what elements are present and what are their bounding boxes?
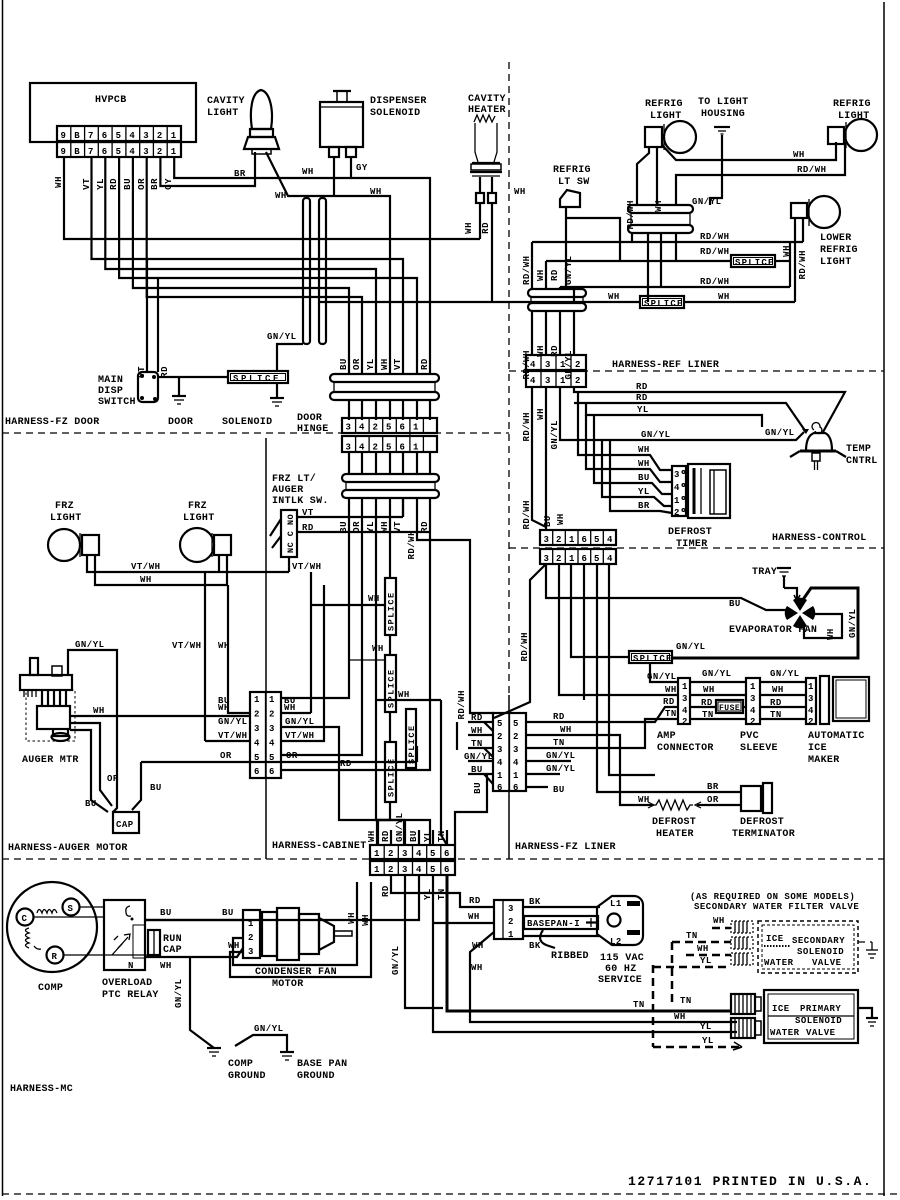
- svg-text:4: 4: [129, 147, 135, 157]
- wire GN/YL from C5 to splice: [571, 564, 629, 657]
- wire GN/YL auger: [68, 650, 117, 812]
- svg-text:WH: WH: [782, 245, 792, 257]
- svg-text:WH: WH: [713, 916, 725, 926]
- auger motor: [20, 658, 75, 741]
- svg-text:PRIMARY: PRIMARY: [800, 1004, 841, 1014]
- svg-text:RD/WH: RD/WH: [700, 247, 730, 257]
- dispenser solenoid: [320, 91, 363, 157]
- svg-text:1: 1: [682, 682, 688, 692]
- svg-text:7: 7: [88, 147, 94, 157]
- wire BU auger to cap: [70, 730, 108, 812]
- section divider fz door bottom: [2, 432, 509, 434]
- svg-text:4: 4: [359, 423, 365, 433]
- svg-text:6: 6: [582, 554, 588, 564]
- svg-text:OR: OR: [220, 751, 232, 761]
- svg-text:LT SW: LT SW: [558, 177, 590, 188]
- svg-text:RD/WH: RD/WH: [700, 277, 730, 287]
- svg-text:OVERLOAD: OVERLOAD: [102, 978, 152, 989]
- svg-text:2: 2: [508, 917, 514, 927]
- svg-text:1: 1: [569, 535, 575, 545]
- svg-text:2: 2: [575, 360, 581, 370]
- wire hinge GN/YL down: [675, 233, 677, 261]
- svg-text:WH: WH: [361, 914, 371, 926]
- connector door hinge grid row1: [342, 418, 437, 436]
- connector harness-ref liner row1: [526, 355, 586, 370]
- svg-text:6: 6: [400, 423, 406, 433]
- wire VT/WH frz lights: [87, 555, 289, 572]
- svg-text:6: 6: [269, 767, 275, 777]
- wire WH down to cabinet: [228, 585, 250, 713]
- svg-text:WH: WH: [608, 292, 620, 302]
- svg-text:BU: BU: [85, 799, 97, 809]
- svg-text:BU: BU: [160, 908, 172, 918]
- defrost heater coil: [648, 800, 701, 810]
- svg-text:GN/YL: GN/YL: [848, 608, 858, 638]
- svg-text:6: 6: [513, 783, 519, 793]
- svg-text:WH: WH: [302, 167, 314, 177]
- svg-text:TRAY: TRAY: [752, 567, 777, 578]
- svg-text:3: 3: [513, 745, 519, 755]
- svg-text:3: 3: [497, 745, 503, 755]
- svg-text:SWITCH: SWITCH: [98, 397, 136, 408]
- svg-text:BU: BU: [553, 785, 565, 795]
- wire hinge WH down: [647, 233, 649, 302]
- wire BU stub C7 right: [526, 786, 548, 788]
- wire BU col down: [281, 498, 349, 698]
- wire RD/WH run3: [560, 286, 790, 288]
- wires into left refrig connector: [531, 242, 533, 289]
- section divider auger/cabinet: [265, 438, 267, 859]
- svg-text:3: 3: [808, 694, 814, 704]
- svg-text:6: 6: [444, 849, 450, 859]
- wire lower light RD/WH lead: [802, 218, 804, 242]
- wire VT/WH right of C6: [281, 585, 324, 741]
- wire col4 C5 down: [609, 564, 655, 775]
- svg-text:GN/YL: GN/YL: [564, 255, 574, 285]
- svg-text:SOLENOID: SOLENOID: [795, 1016, 842, 1026]
- wires comp to relay: [33, 916, 104, 918]
- svg-text:4: 4: [416, 849, 422, 859]
- wire GN/YL run: [560, 387, 804, 440]
- svg-text:4: 4: [513, 758, 519, 768]
- secondary valve coils: [731, 921, 753, 965]
- svg-text:2: 2: [248, 933, 254, 943]
- svg-text:RD: RD: [469, 896, 481, 906]
- svg-text:OR: OR: [137, 178, 147, 190]
- wire RD/WH long down: [532, 387, 546, 527]
- svg-text:DEFROST: DEFROST: [652, 817, 696, 828]
- svg-text:1: 1: [569, 554, 575, 564]
- door duct bar right: [319, 198, 326, 344]
- defrost terminator: [741, 783, 772, 813]
- svg-text:5: 5: [594, 554, 600, 564]
- svg-text:SPLICE: SPLICE: [735, 258, 775, 268]
- svg-text:60 HZ: 60 HZ: [605, 964, 637, 975]
- wire GN/YL stubs C7 right: [526, 760, 571, 762]
- wires refrig connector to ref liner: [531, 311, 533, 355]
- primary valve box: [764, 990, 858, 1043]
- svg-text:NC C NO: NC C NO: [286, 514, 296, 553]
- svg-text:DISPENSER: DISPENSER: [370, 96, 427, 107]
- connector harness-mc row2: [370, 861, 455, 875]
- svg-text:4: 4: [497, 758, 503, 768]
- svg-text:REFRIG: REFRIG: [820, 245, 858, 256]
- svg-text:WH: WH: [284, 703, 296, 713]
- svg-text:4: 4: [750, 706, 756, 716]
- refrig lt sw: [560, 190, 620, 289]
- wire WH into splice2b: [377, 699, 441, 701]
- svg-text:TN: TN: [437, 830, 447, 842]
- svg-text:VT/WH: VT/WH: [285, 731, 315, 741]
- svg-text:RD/WH: RD/WH: [700, 232, 730, 242]
- svg-text:WH: WH: [468, 912, 480, 922]
- svg-text:3: 3: [248, 947, 254, 957]
- svg-text:VT: VT: [82, 178, 92, 190]
- svg-text:CONNECTOR: CONNECTOR: [657, 743, 714, 754]
- wire VT to main disp switch: [146, 259, 148, 372]
- svg-text:GN/YL: GN/YL: [765, 428, 795, 438]
- svg-text:VT/WH: VT/WH: [292, 562, 322, 572]
- pvc sleeve: [746, 678, 760, 727]
- svg-text:RD: RD: [663, 697, 675, 707]
- wire WH relay: [145, 948, 243, 957]
- splice GN/YL: [629, 651, 673, 664]
- svg-text:LOWER: LOWER: [820, 233, 852, 244]
- svg-text:WH: WH: [218, 641, 230, 651]
- svg-text:LIGHT: LIGHT: [50, 513, 82, 524]
- svg-text:6: 6: [582, 535, 588, 545]
- svg-text:2: 2: [373, 423, 379, 433]
- svg-text:4: 4: [674, 483, 680, 493]
- refrig liner connector bars: [528, 289, 586, 311]
- svg-text:SERVICE: SERVICE: [598, 975, 642, 986]
- svg-text:WH: WH: [368, 594, 380, 604]
- svg-text:R: R: [52, 952, 58, 962]
- svg-text:1: 1: [508, 930, 514, 940]
- svg-text:3: 3: [545, 360, 551, 370]
- svg-text:YL: YL: [423, 888, 433, 900]
- svg-text:WH: WH: [218, 703, 230, 713]
- amp connector: [678, 678, 690, 727]
- overload ptc relay: [104, 900, 145, 970]
- svg-text:5: 5: [116, 147, 122, 157]
- wire GN/YL relay ground: [190, 957, 214, 1048]
- svg-text:GN/YL: GN/YL: [75, 640, 105, 650]
- wire OR col down: [281, 498, 362, 755]
- wire WH vert into C6 area: [310, 572, 312, 713]
- svg-text:12717101 PRINTED IN U.S.A.: 12717101 PRINTED IN U.S.A.: [628, 1174, 872, 1189]
- svg-text:BU: BU: [222, 908, 234, 918]
- svg-text:6: 6: [444, 865, 450, 875]
- ground secondary: [858, 942, 878, 958]
- splice cabinet 2: [385, 655, 397, 712]
- svg-text:RD: RD: [553, 712, 565, 722]
- wire VT/WH down to cabinet: [204, 572, 206, 741]
- svg-text:1: 1: [374, 865, 380, 875]
- ice maker connector: [806, 676, 829, 727]
- door hinge pin stubs: [349, 400, 430, 420]
- svg-text:AUGER: AUGER: [272, 485, 304, 496]
- power plug 115vac: [597, 896, 643, 947]
- svg-text:WH: WH: [793, 150, 805, 160]
- svg-text:BU: BU: [543, 515, 553, 527]
- svg-text:2: 2: [682, 717, 688, 727]
- svg-text:LIGHT: LIGHT: [207, 108, 239, 119]
- svg-text:BASE PAN: BASE PAN: [297, 1059, 347, 1070]
- wire WH run with splice2: [320, 301, 640, 303]
- wire RD intlk: [297, 531, 430, 533]
- svg-text:GN/YL: GN/YL: [647, 672, 677, 682]
- svg-text:3: 3: [143, 131, 149, 141]
- svg-text:5: 5: [430, 849, 436, 859]
- wire WH col to splice stack: [389, 498, 391, 578]
- wire BR timer: [610, 440, 672, 513]
- svg-text:TN: TN: [680, 996, 692, 1006]
- svg-text:HARNESS-CABINET: HARNESS-CABINET: [272, 841, 367, 852]
- svg-text:YL: YL: [423, 830, 433, 842]
- svg-text:1: 1: [750, 682, 756, 692]
- wire hinge RD down: [660, 233, 662, 287]
- fuse: [716, 700, 743, 713]
- svg-text:CAVITY: CAVITY: [207, 96, 245, 107]
- wire VT intlk: [297, 516, 403, 518]
- svg-text:4: 4: [129, 131, 135, 141]
- wire WH branch to splice area: [349, 659, 385, 661]
- svg-text:1: 1: [674, 496, 680, 506]
- basepan connector: [494, 900, 523, 940]
- svg-text:BR: BR: [707, 782, 719, 792]
- ground DOOR: [172, 377, 186, 404]
- wire VT col: [402, 498, 404, 517]
- svg-text:VALVE: VALVE: [806, 1028, 836, 1038]
- wire evap fan WH loop: [804, 614, 842, 638]
- svg-text:HARNESS-REF LINER: HARNESS-REF LINER: [612, 360, 719, 371]
- svg-text:3: 3: [544, 554, 550, 564]
- svg-text:RD: RD: [302, 523, 314, 533]
- svg-text:BU: BU: [339, 358, 349, 370]
- svg-text:SOLENOID: SOLENOID: [370, 108, 420, 119]
- svg-text:SECONDARY: SECONDARY: [792, 936, 845, 946]
- wire switch to splice: [158, 376, 228, 378]
- wire RD/WH C5 to C7: [494, 564, 546, 718]
- frz lt/auger intlk switch: [270, 510, 297, 572]
- wire YL timer: [602, 440, 672, 506]
- svg-text:REFRIG: REFRIG: [553, 165, 591, 176]
- connector harness-ref liner row2: [526, 371, 586, 387]
- wire RD run1: [574, 387, 845, 432]
- svg-text:SPLICE: SPLICE: [644, 299, 684, 309]
- svg-text:SOLENOID: SOLENOID: [222, 417, 272, 428]
- svg-text:DISP: DISP: [98, 386, 123, 397]
- svg-text:MAKER: MAKER: [808, 755, 840, 766]
- refrig light left: [645, 121, 696, 153]
- ribbed pointer: [540, 930, 555, 948]
- wire motor WH to pin2: [70, 715, 250, 717]
- wire labels above hinge: [339, 358, 430, 370]
- splice refrig2: [640, 296, 684, 309]
- svg-text:RD: RD: [340, 759, 352, 769]
- svg-text:3: 3: [346, 423, 352, 433]
- wire WH timer1: [578, 392, 672, 470]
- dashed wires secondary: [653, 916, 742, 1050]
- ground comp: [207, 1048, 221, 1056]
- svg-text:RD: RD: [481, 222, 491, 234]
- svg-text:RD: RD: [381, 885, 391, 897]
- svg-text:GN/YL: GN/YL: [702, 669, 732, 679]
- svg-text:COMP: COMP: [228, 1059, 253, 1070]
- svg-text:RD/WH: RD/WH: [407, 530, 417, 560]
- svg-text:2: 2: [556, 535, 562, 545]
- svg-text:RD: RD: [381, 830, 391, 842]
- svg-text:REFRIG: REFRIG: [645, 99, 683, 110]
- svg-text:ICE: ICE: [766, 934, 784, 944]
- svg-text:3: 3: [750, 694, 756, 704]
- svg-text:SPLICE: SPLICE: [633, 654, 673, 664]
- svg-text:AUGER MTR: AUGER MTR: [22, 755, 79, 766]
- svg-text:YL: YL: [96, 178, 106, 190]
- svg-text:1: 1: [171, 131, 177, 141]
- cavity light bulb: [244, 90, 279, 154]
- svg-text:VT/WH: VT/WH: [131, 562, 161, 572]
- svg-text:INTLK SW.: INTLK SW.: [272, 496, 329, 507]
- svg-text:GN/YL: GN/YL: [546, 751, 576, 761]
- svg-text:BU: BU: [638, 473, 650, 483]
- splice fz door: [228, 371, 288, 384]
- svg-text:WH: WH: [638, 459, 650, 469]
- svg-text:RD/WH: RD/WH: [798, 250, 808, 280]
- wire GN/YL down: [405, 875, 443, 1008]
- svg-text:OR: OR: [352, 358, 362, 370]
- svg-text:GN/YL: GN/YL: [550, 420, 560, 450]
- capacitor CAP: [113, 812, 139, 833]
- border left: [2, 0, 4, 1196]
- svg-text:2: 2: [254, 710, 260, 720]
- svg-text:1: 1: [248, 919, 254, 929]
- svg-text:LIGHT: LIGHT: [650, 111, 682, 122]
- wires pvc to ice maker: [760, 681, 806, 683]
- svg-text:WH: WH: [703, 685, 715, 695]
- wire RD from C7 to amp: [526, 707, 678, 722]
- svg-text:YL: YL: [700, 956, 712, 966]
- svg-text:1: 1: [560, 360, 566, 370]
- svg-text:VT: VT: [137, 366, 147, 378]
- wire WH condenser 1: [233, 882, 357, 965]
- wire YL run: [586, 403, 762, 427]
- svg-text:RUN: RUN: [163, 934, 182, 945]
- svg-text:5: 5: [497, 719, 503, 729]
- svg-text:AMP: AMP: [657, 731, 676, 742]
- svg-text:HEATER: HEATER: [468, 105, 506, 116]
- svg-text:WH: WH: [514, 187, 526, 197]
- wire pin4 BU: [133, 157, 349, 374]
- svg-text:GROUND: GROUND: [297, 1071, 335, 1082]
- svg-text:BU: BU: [123, 178, 133, 190]
- wire RD run2: [574, 403, 806, 432]
- wire TN col down to MC: [441, 700, 447, 845]
- connector harness-control row1: [540, 530, 616, 545]
- connector HVPCB 9-pin row2: [57, 142, 181, 157]
- svg-text:RD/WH: RD/WH: [797, 165, 827, 175]
- wire GN/YL splice to amp: [650, 663, 678, 682]
- svg-text:BU: BU: [150, 783, 162, 793]
- svg-text:DEFROST: DEFROST: [668, 527, 712, 538]
- svg-text:2: 2: [497, 732, 503, 742]
- wire BU right to cap: [132, 762, 141, 810]
- svg-text:GN/YL: GN/YL: [676, 642, 706, 652]
- svg-text:4: 4: [530, 360, 536, 370]
- wire WH basepan to valve: [470, 932, 737, 1022]
- connector door hinge grid row2: [342, 436, 437, 453]
- svg-text:4: 4: [808, 706, 814, 716]
- svg-text:9: 9: [61, 147, 67, 157]
- svg-text:1: 1: [171, 147, 177, 157]
- svg-text:BU: BU: [409, 830, 419, 842]
- svg-text:WATER: WATER: [770, 1028, 800, 1038]
- wires basepan to plug: [523, 906, 600, 908]
- svg-text:WH: WH: [471, 726, 483, 736]
- svg-text:WH: WH: [347, 912, 357, 924]
- door duct bar left: [303, 198, 310, 344]
- svg-text:GN/YL: GN/YL: [218, 717, 248, 727]
- svg-text:WH: WH: [536, 408, 546, 420]
- wire WH from C7 to defrost heater: [526, 735, 652, 805]
- svg-text:CNTRL: CNTRL: [846, 456, 878, 467]
- to light housing: [710, 127, 730, 205]
- wire WH frz lights: [95, 555, 228, 585]
- wire RD to main disp switch: [157, 278, 159, 372]
- svg-text:HINGE: HINGE: [297, 424, 329, 435]
- svg-text:RD: RD: [420, 358, 430, 370]
- condenser fan motor: [262, 908, 352, 960]
- svg-text:BU: BU: [471, 765, 483, 775]
- wire stubs above MC: [377, 820, 447, 845]
- wire TN down to valve: [447, 875, 731, 1011]
- svg-text:HARNESS-FZ DOOR: HARNESS-FZ DOOR: [5, 417, 100, 428]
- svg-text:RD: RD: [471, 713, 483, 723]
- wire BU relay to condenser: [145, 875, 419, 920]
- svg-text:YL: YL: [638, 487, 650, 497]
- svg-text:BU: BU: [473, 782, 483, 794]
- svg-text:L2: L2: [610, 937, 622, 947]
- svg-text:6: 6: [102, 131, 108, 141]
- ground base pan: [280, 1052, 294, 1060]
- svg-text:SPLICE: SPLICE: [387, 668, 397, 708]
- svg-text:WH: WH: [772, 685, 784, 695]
- svg-text:4: 4: [607, 554, 613, 564]
- svg-text:1: 1: [808, 682, 814, 692]
- svg-text:WH: WH: [380, 358, 390, 370]
- svg-text:3: 3: [402, 865, 408, 875]
- wires amp to pvc sleeve: [690, 681, 746, 683]
- svg-text:CAVITY: CAVITY: [468, 94, 506, 105]
- svg-text:TN: TN: [633, 1000, 645, 1010]
- svg-text:L1: L1: [610, 899, 622, 909]
- svg-text:4: 4: [269, 739, 275, 749]
- svg-text:2: 2: [556, 554, 562, 564]
- svg-text:OR: OR: [107, 774, 119, 784]
- svg-text:S: S: [68, 904, 74, 914]
- svg-text:WH: WH: [228, 941, 240, 951]
- wire pin6 YL: [105, 157, 376, 374]
- svg-text:6: 6: [254, 767, 260, 777]
- wire WH down to control conn: [545, 387, 547, 530]
- svg-text:2: 2: [388, 849, 394, 859]
- wire WH splice link: [311, 604, 385, 606]
- cavity heater: [470, 115, 502, 302]
- svg-text:3: 3: [544, 535, 550, 545]
- wire TN from C7 to amp: [526, 719, 678, 748]
- svg-text:N: N: [128, 961, 134, 971]
